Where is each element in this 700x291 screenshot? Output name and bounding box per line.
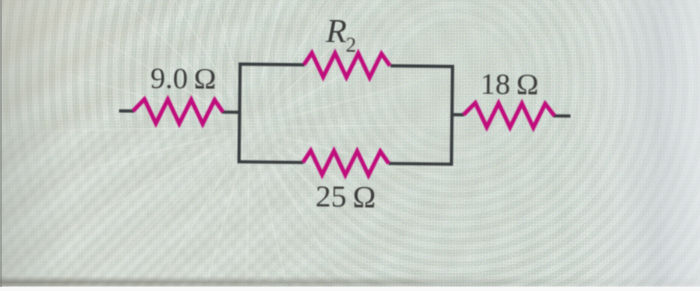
resistor R2: [304, 53, 390, 78]
left edge dark sliver: [0, 0, 2, 287]
node parallel box outline: [239, 64, 452, 164]
bottom white strip: [0, 287, 700, 291]
svg-text:18 Ω: 18 Ω: [480, 68, 539, 102]
svg-text:25 Ω: 25 Ω: [315, 178, 376, 214]
wire box to right resistor: [452, 113, 464, 116]
bottom dark band: [0, 276, 700, 287]
svg-text:2: 2: [346, 33, 357, 57]
circuit drawing, slightly rotated like the photo: [118, 11, 572, 217]
svg-text:R: R: [325, 13, 347, 50]
wire left-resistor to box: [222, 110, 240, 113]
resistor 25 ohm: [303, 150, 389, 175]
resistor 18 ohm: [463, 103, 554, 128]
wire right lead: [553, 114, 570, 117]
resistor 9.0 ohm: [133, 99, 223, 124]
wire left lead: [119, 109, 134, 112]
svg-text:9.0 Ω: 9.0 Ω: [150, 62, 216, 96]
